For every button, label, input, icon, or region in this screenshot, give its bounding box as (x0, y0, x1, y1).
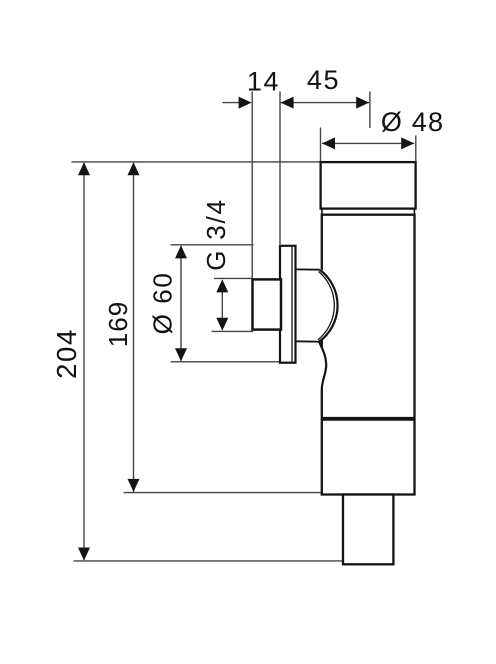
arrow 204 up (78, 162, 90, 175)
dome outer arc (319, 270, 337, 342)
ext lines dia48 (320, 128, 322, 164)
S-curve into body (319, 342, 326, 391)
arrow 169 up (128, 162, 140, 175)
arrow dia60 up (175, 245, 187, 258)
arrow dia48 left (322, 137, 335, 149)
ext line top (body top reference) (72, 161, 321, 163)
svg-text:14: 14 (247, 66, 280, 96)
outlet pipe (343, 495, 393, 565)
svg-text:G 3/4: G 3/4 (201, 198, 231, 271)
lip ticks (321, 209, 323, 215)
arrow 169 down (128, 479, 140, 492)
dome (valve housing bulge) (293, 268, 338, 391)
dim line dia60 (180, 246, 182, 361)
valve body parts (321, 162, 416, 564)
arrow dia60 down (175, 348, 187, 361)
ext line 45 axis (369, 92, 371, 129)
push button (253, 279, 282, 329)
svg-text:Ø 60: Ø 60 (148, 272, 178, 335)
svg-text:45: 45 (307, 65, 340, 95)
svg-text:169: 169 (103, 301, 133, 347)
flange (escutcheon plate) (280, 246, 296, 363)
arrow 45 left (281, 97, 294, 109)
arrow 14 (outside, pointing right) (239, 97, 252, 109)
arrow dia48 right (401, 137, 414, 149)
arrow G34 down (216, 318, 228, 331)
dim line 169 (133, 163, 135, 492)
dim line G34 (221, 280, 223, 330)
dome bottom collar line (295, 340, 319, 342)
dome inner arc (318, 272, 334, 340)
svg-text:204: 204 (51, 328, 82, 379)
dim line dia48 (322, 142, 414, 144)
ext lines dia60 (171, 244, 254, 246)
separator thick line (321, 417, 415, 421)
body main section (322, 215, 415, 495)
ext lines G34 (214, 277, 253, 279)
ext line bottom 204 (74, 560, 347, 562)
arrow 45 right (356, 97, 369, 109)
body cap (top section) (321, 162, 416, 209)
arrow G34 up (216, 279, 228, 292)
ext line 14/45 shared (279, 92, 281, 245)
ext line bottom 169 (124, 492, 325, 494)
dim 14 tail (222, 102, 239, 104)
dome top collar line (295, 268, 320, 270)
dim line 45 (281, 102, 370, 104)
dim line 204 (83, 163, 85, 560)
ext line 14 left (251, 92, 253, 278)
svg-text:Ø 48: Ø 48 (381, 107, 444, 137)
arrow 204 down (78, 548, 90, 561)
